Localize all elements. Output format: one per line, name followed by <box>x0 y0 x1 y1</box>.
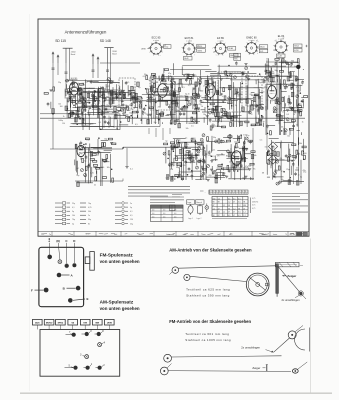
resistor (AF stage) <box>176 157 178 161</box>
svg-text:Lage 1: Lage 1 <box>188 218 193 220</box>
wire (IF stage 1) <box>178 83 180 124</box>
trimmer (power supply) <box>276 182 279 185</box>
resistor (IF stage 1) <box>174 120 176 124</box>
wire (output stage) <box>206 166 208 173</box>
wire (FM tuner) <box>136 115 138 118</box>
wire (band upper) <box>82 96 84 108</box>
svg-text:150: 150 <box>79 85 82 87</box>
antenna feed wire g <box>106 63 108 92</box>
svg-text:1M: 1M <box>147 115 150 117</box>
svg-text:2n: 2n <box>296 167 298 169</box>
trimmer (IF stage 2) <box>199 81 202 84</box>
wire (IF stage 1) <box>176 110 200 112</box>
trimmer (oscillator AM) <box>81 169 84 172</box>
junction (IF stage 1) <box>184 105 186 107</box>
FM cord top <box>274 338 290 352</box>
ground (IF stage 1) <box>192 87 195 89</box>
Lage box 1 <box>187 200 195 204</box>
ground (detector right) <box>290 87 293 89</box>
wire (IF stage 2) <box>217 80 219 126</box>
wire (band upper) <box>98 91 100 98</box>
ground (output stage) <box>207 178 210 180</box>
svg-text:50k: 50k <box>253 155 256 157</box>
capacitor (IF stage 1) <box>194 104 197 106</box>
trimmer (detector right) <box>296 95 299 98</box>
coil (detector right) <box>291 92 294 97</box>
svg-text:5p: 5p <box>72 223 74 225</box>
wire (detector right) <box>271 68 273 91</box>
resistor (FM tuner) <box>98 109 100 113</box>
pilot lamp symbol <box>205 206 209 210</box>
wire (detector right) <box>303 68 304 70</box>
resistor (band upper) <box>93 106 97 108</box>
svg-text:10k: 10k <box>58 104 61 106</box>
wire (power supply) <box>295 169 299 171</box>
trimmer (output stage) <box>231 155 234 158</box>
svg-text:47p: 47p <box>158 107 161 109</box>
chassis pin 6 <box>85 332 89 336</box>
trimmer (AF stage) <box>198 160 201 163</box>
wire (IF stage 2) <box>215 109 218 111</box>
wire (mid links) <box>247 73 257 75</box>
wire (output stage) <box>216 154 224 156</box>
svg-text:0,25: 0,25 <box>193 75 197 77</box>
svg-text:0,5: 0,5 <box>191 125 194 127</box>
capacitor (detector right) <box>301 81 304 83</box>
resistor (power supply) <box>267 152 269 156</box>
capacitor (IF stage 2) <box>217 91 220 93</box>
wire (detector right) <box>281 60 283 112</box>
resistor (IF stage 1) <box>147 89 149 93</box>
coil (IF stage 2) <box>217 112 220 117</box>
wire (IF stage 1) <box>194 92 196 102</box>
coil set lead line D <box>73 243 75 263</box>
wire (IF stage 2) <box>201 97 206 99</box>
wire (IF stage 2) <box>206 99 238 101</box>
wire (AF stage) <box>203 157 204 159</box>
left rail junction <box>52 113 54 115</box>
svg-text:5p: 5p <box>170 123 172 125</box>
resistor (IF stage 1) <box>195 82 197 86</box>
trimmer (oscillator AM) <box>84 173 87 176</box>
schematic sheet border frame <box>38 19 309 236</box>
wire (FM tuner) <box>98 82 118 84</box>
resistor (IF stage 1) <box>192 94 196 96</box>
capacitor (FM tuner lower) <box>72 111 75 113</box>
wire (band upper) <box>99 96 126 98</box>
svg-text:5p: 5p <box>300 177 302 179</box>
resistor (IF stage 2) <box>207 80 209 84</box>
svg-text:25µ: 25µ <box>72 203 75 205</box>
wire (AF stage) <box>182 148 184 160</box>
coil (IF stage 2) <box>231 116 234 121</box>
wire (FM tuner) <box>94 106 100 108</box>
capacitor (output stage) <box>241 158 244 160</box>
svg-text:4,6: 4,6 <box>163 210 165 212</box>
coil (detector right) <box>287 76 290 81</box>
wire (AF stage) <box>175 144 177 159</box>
coil set lead dot e <box>49 238 51 240</box>
FM pulley top right <box>288 331 296 339</box>
coil (IF stage 1) <box>161 112 164 117</box>
svg-text:98: 98 <box>238 208 240 210</box>
wire (IF stage 1) <box>171 76 173 124</box>
wire (oscillator AM) <box>89 151 91 183</box>
coil (IF stage 1) <box>178 123 181 128</box>
capacitor (mid links) <box>242 72 245 74</box>
resistor (output stage) <box>220 141 224 143</box>
resistor (band upper) <box>78 93 82 95</box>
junction (IF stage 1) <box>155 102 157 104</box>
ground (output stage) <box>210 160 213 162</box>
trimmer (IF stage 2) <box>228 97 231 100</box>
resistor (IF stage 1) <box>193 112 197 114</box>
svg-text:25µ: 25µ <box>235 143 238 145</box>
wire (FM tuner) <box>115 84 117 99</box>
resistor (left inputs) <box>53 87 55 91</box>
resistor (IF stage 2) <box>214 112 216 116</box>
wire (detector right) <box>279 62 299 64</box>
wire (FM tuner) <box>97 87 99 118</box>
antenna dipole arrow B1 <box>92 54 94 64</box>
coil pin D <box>72 263 76 267</box>
svg-text:1k: 1k <box>302 122 304 124</box>
junction (oscillator AM) <box>111 168 113 170</box>
wire (FM tuner) <box>108 80 114 82</box>
wire (power supply) <box>269 138 279 140</box>
wire (IF stage 1) <box>153 101 155 107</box>
resistor (IF stage 2) <box>230 122 232 126</box>
AM tension pulley <box>299 292 302 295</box>
coil (output stage) <box>251 154 254 159</box>
svg-text:SPEZ: SPEZ <box>58 323 64 325</box>
svg-text:0,25: 0,25 <box>90 172 94 174</box>
wire (detector right) <box>285 103 287 106</box>
junction (mid links) <box>270 73 272 75</box>
trimmer (IF stage 2) <box>222 108 225 111</box>
svg-text:47p: 47p <box>245 166 248 168</box>
resistor (oscillator AM) <box>102 177 106 179</box>
coil (band upper) <box>135 93 138 98</box>
svg-text:2x umschlingen: 2x umschlingen <box>241 346 260 350</box>
wire (output stage) <box>232 157 248 159</box>
capacitor (detector right) <box>290 63 293 65</box>
capacitor (output stage) <box>203 147 206 149</box>
capacitor (FM tuner) <box>115 95 118 97</box>
svg-text:47p: 47p <box>296 87 299 89</box>
capacitor (output stage) <box>240 164 243 166</box>
coil (power supply) <box>288 180 291 185</box>
wire (IF stage 1) <box>174 81 176 113</box>
wire (FM tuner) <box>105 84 107 89</box>
FM box outline <box>81 93 83 127</box>
wire (IF stage 2) <box>255 79 258 81</box>
wire (FM tuner) <box>132 98 138 100</box>
wire (power supply) <box>283 180 293 182</box>
wire (oscillator AM) <box>85 146 87 182</box>
svg-text:300: 300 <box>193 138 196 140</box>
tube socket ECH81 <box>183 43 194 54</box>
socket value box 1 <box>164 45 172 49</box>
resistor (FM tuner lower) <box>68 113 70 117</box>
resistor (oscillator AM) <box>101 143 103 147</box>
svg-text:1M: 1M <box>290 89 293 91</box>
wire (AF stage) <box>200 158 202 180</box>
ground (band upper) <box>133 92 136 94</box>
svg-text:150: 150 <box>279 158 282 160</box>
svg-text:2n: 2n <box>266 100 268 102</box>
wire (detector right) <box>301 101 304 103</box>
resistor (FM tuner) <box>77 89 81 91</box>
tube socket EL84 <box>275 41 287 53</box>
wire (IF stage 2) <box>263 123 265 127</box>
capacitor (IF stage 1) <box>162 74 165 76</box>
wire (IF stage 2) <box>230 112 232 118</box>
svg-text:1,4: 1,4 <box>216 193 218 195</box>
resistor (band upper) <box>68 89 70 93</box>
resistor (power supply) <box>287 157 289 161</box>
wire (power supply) <box>270 140 272 166</box>
resistor (IF stage 2) <box>228 117 232 119</box>
wire (output stage) <box>211 166 213 175</box>
resistor (FM tuner lower) <box>82 119 84 123</box>
resistor (oscillator AM) <box>112 178 114 182</box>
svg-text:EZ80: EZ80 <box>294 50 298 52</box>
capacitor (oscillator AM) <box>87 165 90 167</box>
svg-text:30p: 30p <box>272 66 275 68</box>
capacitor (AF stage) <box>184 161 187 163</box>
wire (IF stage 2) <box>218 117 223 119</box>
wire (IF stage 1) <box>173 90 175 96</box>
wire (output stage) <box>220 170 222 180</box>
capacitor (IF stage 1) <box>162 77 165 79</box>
capacitor (IF stage 1) <box>153 75 156 77</box>
svg-text:0,5: 0,5 <box>286 114 289 116</box>
left rail wire <box>52 75 54 114</box>
wire (IF stage 1) <box>150 95 152 124</box>
wire (band upper) <box>76 87 95 89</box>
junction (mid links) <box>247 71 249 73</box>
coil (output stage) <box>236 162 239 167</box>
ground (detector right) <box>289 106 292 108</box>
wire (IF stage 2) <box>219 76 221 96</box>
wire (band upper) <box>132 97 136 99</box>
svg-text:5p: 5p <box>253 108 255 110</box>
trimmer (oscillator AM) <box>103 159 106 162</box>
capacitor (output stage) <box>208 151 211 153</box>
svg-text:6,75: 6,75 <box>252 198 255 200</box>
junction (IF stage 1) <box>152 79 154 81</box>
resistor (detector right) <box>300 112 302 116</box>
capacitor (FM tuner lower) <box>126 105 129 107</box>
wire (detector right) <box>265 76 273 78</box>
junction (IF stage 1) <box>140 119 142 121</box>
wire (FM tuner lower) <box>131 111 133 124</box>
trimmer (output stage) <box>245 137 248 140</box>
coil (IF stage 2) <box>253 97 256 102</box>
wire (output stage) <box>230 144 232 178</box>
coil (FM tuner) <box>110 100 113 105</box>
capacitor (power supply) <box>294 156 297 158</box>
svg-text:300: 300 <box>200 90 203 92</box>
antenna feed wire a <box>52 63 54 75</box>
svg-text:SD 115: SD 115 <box>55 39 66 43</box>
wire (IF stage 1) <box>154 78 194 80</box>
trimmer (detector right) <box>286 118 289 121</box>
wire (power supply) <box>303 139 305 152</box>
svg-text:70p: 70p <box>88 203 91 205</box>
capacitor (detector right) <box>292 124 295 126</box>
coil (output stage) <box>215 174 218 179</box>
svg-text:50k: 50k <box>296 125 299 127</box>
wire (output stage) <box>242 146 244 162</box>
capacitor (oscillator AM) <box>97 151 100 153</box>
capacitor (IF stage 1) <box>170 79 173 81</box>
svg-text:Textilseil ca 601 mm lang: Textilseil ca 601 mm lang <box>185 332 229 336</box>
wire (output stage) <box>245 153 251 155</box>
wire (band upper) <box>117 106 126 108</box>
svg-text:v. unten: v. unten <box>249 39 255 42</box>
trimmer (FM tuner) <box>120 108 123 111</box>
resistor (output stage) <box>244 157 246 161</box>
svg-text:10k: 10k <box>226 78 229 80</box>
junction (output stage) <box>237 170 239 172</box>
resistor (output stage) <box>218 165 222 167</box>
svg-text:0,5: 0,5 <box>188 85 191 87</box>
svg-text:a2: a2 <box>164 45 166 47</box>
wire (IF stage 1) <box>146 100 168 102</box>
wire (power supply) <box>288 144 290 155</box>
socket tail mark <box>306 45 308 47</box>
wire (FM tuner) <box>98 88 100 115</box>
wire (IF stage 2) <box>233 86 235 127</box>
capacitor (IF stage 1) <box>162 74 165 76</box>
wire (output stage) <box>234 146 236 181</box>
wire (mid links) <box>173 63 175 75</box>
svg-text:g1: g1 <box>256 40 258 42</box>
coil (output stage) <box>233 163 236 168</box>
wire (IF stage 2) <box>215 116 237 118</box>
FM drum partial arc <box>295 329 305 350</box>
svg-text:0,25: 0,25 <box>180 157 184 159</box>
wire (band upper) <box>79 106 111 108</box>
wire (IF stage 1) <box>167 114 176 116</box>
trimmer (detector right) <box>284 84 287 87</box>
ground (FM tuner) <box>79 117 82 119</box>
resistor (IF stage 2) <box>221 108 223 112</box>
capacitor (IF stage 2) <box>257 109 260 111</box>
wire (output stage) <box>206 145 208 156</box>
svg-text:2n: 2n <box>94 185 96 187</box>
svg-text:1M: 1M <box>170 169 173 171</box>
capacitor (power supply) <box>273 174 276 176</box>
coupling capacitor Cb <box>65 71 68 73</box>
capacitor (IF stage 1) <box>143 107 146 109</box>
svg-text:300: 300 <box>226 113 229 115</box>
svg-text:98: 98 <box>218 202 220 204</box>
capacitor (band upper) <box>121 90 124 92</box>
component legend list left <box>55 202 62 204</box>
wire (detector right) <box>296 82 298 126</box>
wire (band upper) <box>86 103 88 108</box>
svg-text:0,1: 0,1 <box>281 171 284 173</box>
ground (output stage) <box>248 168 251 170</box>
wire (FM tuner) <box>65 80 69 82</box>
AM cord diagonal 2 <box>301 293 306 299</box>
resistor (IF stage 2) <box>245 121 249 123</box>
svg-text:30p: 30p <box>154 122 157 124</box>
junction (band upper) <box>85 101 87 103</box>
wire (AF stage) <box>169 153 171 176</box>
wire (FM tuner) <box>119 86 121 91</box>
resistor (mid links) <box>164 69 168 71</box>
ground (mid links) <box>244 62 247 64</box>
lower bus wire mid <box>123 146 200 148</box>
junction (band upper) <box>75 103 77 105</box>
svg-text:6,5: 6,5 <box>228 198 230 200</box>
svg-text:30p: 30p <box>213 125 216 127</box>
capacitor (IF stage 1) <box>200 100 203 102</box>
svg-text:5p: 5p <box>113 100 115 102</box>
wire (band upper) <box>105 99 140 101</box>
svg-text:70p: 70p <box>169 95 172 97</box>
resistor (power supply) <box>268 160 270 164</box>
top right drop wire <box>297 67 299 145</box>
svg-text:150: 150 <box>72 102 75 104</box>
wire (IF stage 2) <box>249 105 251 113</box>
svg-text:5p: 5p <box>290 66 292 68</box>
wire (power supply) <box>270 163 272 169</box>
ground (IF stage 1) <box>176 119 179 121</box>
resistor (detector right) <box>289 128 293 130</box>
wire (detector right) <box>268 125 275 127</box>
wire (mid links) <box>218 65 287 67</box>
resistor (IF stage 2) <box>233 116 237 118</box>
resistor (oscillator AM) <box>85 166 87 170</box>
svg-text:6,5: 6,5 <box>228 215 230 217</box>
capacitor (IF stage 2) <box>209 119 212 121</box>
svg-text:KW: KW <box>83 323 87 325</box>
resistor (IF stage 1) <box>196 105 198 109</box>
trimmer (detector right) <box>291 107 294 110</box>
svg-text:98: 98 <box>228 205 230 207</box>
wire (FM tuner) <box>93 82 120 84</box>
wire (AF stage) <box>174 139 176 149</box>
trimmer (FM tuner) <box>91 94 94 97</box>
resistor (IF stage 2) <box>251 124 255 126</box>
wire (detector right) <box>296 99 298 107</box>
svg-text:10k: 10k <box>281 127 284 129</box>
svg-text:0,25: 0,25 <box>107 105 111 107</box>
wire (output stage) <box>240 135 242 139</box>
upper mid extra <box>148 128 150 134</box>
chassis pin 8 <box>97 332 101 336</box>
trimmer (IF stage 1) <box>188 103 191 106</box>
svg-text:von unten gesehen: von unten gesehen <box>100 306 140 311</box>
wire (IF stage 1) <box>154 119 156 125</box>
svg-text:6V4: 6V4 <box>260 51 263 53</box>
wire (IF stage 1) <box>162 122 164 124</box>
capacitor (output stage) <box>220 140 223 142</box>
svg-text:2n: 2n <box>188 94 190 96</box>
resistor (AF stage) <box>175 174 179 176</box>
wire (IF stage 1) <box>197 78 199 87</box>
svg-text:98: 98 <box>228 208 230 210</box>
wire (oscillator AM) <box>97 139 99 156</box>
wire (output stage) <box>240 161 242 168</box>
svg-text:0,25: 0,25 <box>236 96 240 98</box>
wire (IF stage 2) <box>215 81 217 89</box>
